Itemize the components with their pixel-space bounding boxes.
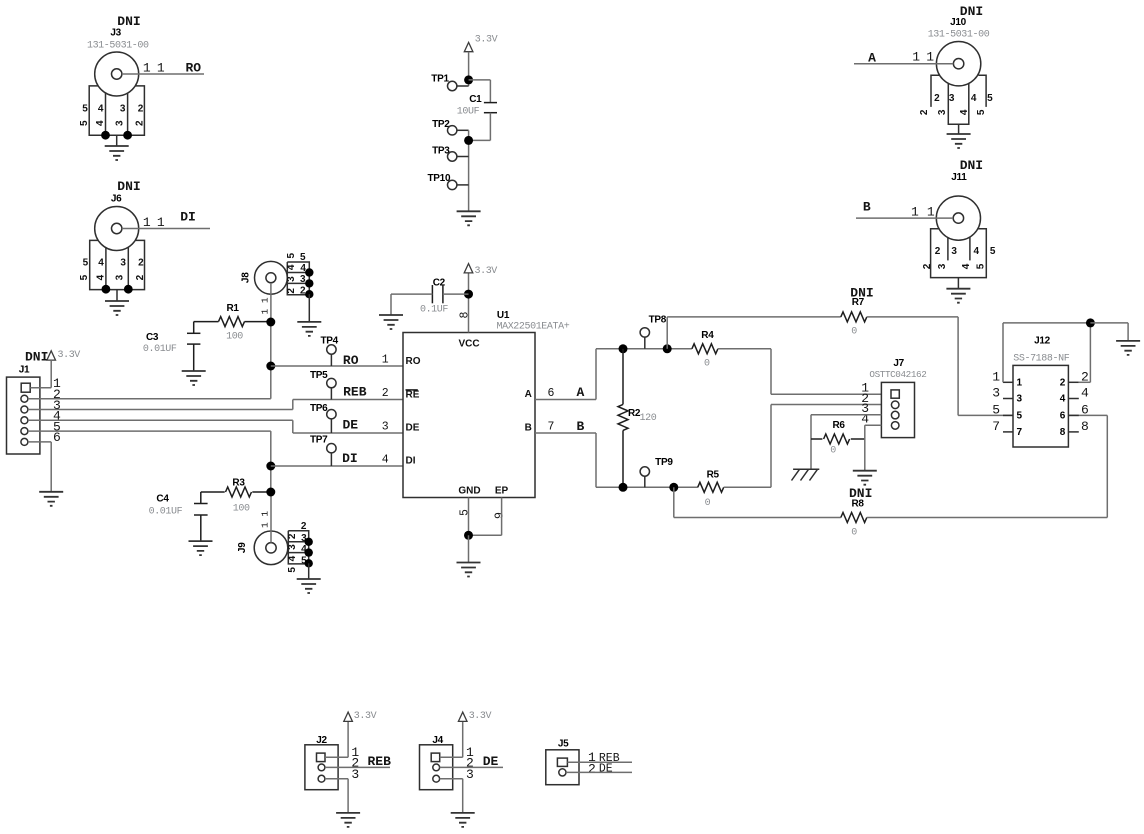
- svg-text:J8: J8: [241, 272, 252, 283]
- wire net A horizontal: [596, 348, 692, 350]
- connector J8 shield bracket: [287, 262, 309, 295]
- resistor R3 refdes: [232, 478, 245, 489]
- connector J5 refdes: [558, 739, 569, 750]
- svg-text:A: A: [868, 50, 876, 65]
- svg-text:2: 2: [287, 533, 298, 539]
- junction dot J12 ground: [1086, 318, 1095, 327]
- connector J1 pin circles: [21, 395, 28, 445]
- svg-text:4: 4: [1081, 386, 1089, 401]
- connector J4 refdes: [432, 735, 443, 746]
- connector J1 pin numbers: [53, 376, 61, 445]
- wire DI down to R3 J9: [270, 466, 272, 492]
- ground at J8: [297, 294, 321, 336]
- svg-text:EP: EP: [495, 485, 509, 496]
- junction dots on J8 shield: [305, 268, 313, 298]
- svg-text:8: 8: [1060, 427, 1066, 438]
- testpoint TP1 label: [431, 74, 449, 85]
- capacitor C4 value 0.01UF: [149, 507, 183, 518]
- testpoint TP9: [640, 467, 649, 488]
- connector J12 left pin stubs: [1003, 382, 1013, 432]
- power net label 3.3V at J4: [469, 711, 492, 722]
- svg-text:3.3V: 3.3V: [475, 266, 498, 277]
- svg-text:J9: J9: [237, 542, 248, 553]
- junction dot A R7: [663, 344, 672, 353]
- svg-text:A: A: [576, 385, 584, 400]
- resistor R1 value 100: [226, 332, 243, 343]
- wire J5 pin1 net REB: [567, 761, 632, 763]
- wire J8 R1 junction to RO: [270, 322, 272, 366]
- connector J5 pin circle: [559, 769, 566, 776]
- connector J4 body: [420, 745, 453, 790]
- wire GND to ground: [468, 535, 470, 562]
- wire J2 pin2 net REB: [325, 766, 390, 768]
- U1 pin number 7: [548, 421, 555, 434]
- connector J6 refdes: [111, 194, 122, 205]
- svg-text:1: 1: [143, 61, 151, 76]
- connector J6 shield bracket: [90, 240, 145, 289]
- svg-text:1: 1: [143, 215, 151, 230]
- svg-text:1 1: 1 1: [260, 297, 271, 314]
- svg-text:1: 1: [157, 61, 165, 76]
- U1 pin number 4: [382, 454, 389, 467]
- junction dot C1 ground: [464, 136, 473, 145]
- resistor R8 value 0: [851, 528, 857, 539]
- connector J5 body: [546, 750, 579, 785]
- connector J11 body circle: [936, 196, 980, 240]
- svg-text:0.01UF: 0.01UF: [143, 344, 177, 355]
- svg-text:5: 5: [987, 93, 993, 104]
- net label RO: [343, 353, 359, 368]
- junction dot R1 J8: [266, 318, 275, 327]
- svg-text:MAX22501EATA+: MAX22501EATA+: [497, 322, 570, 333]
- junction dot R3 J9: [266, 488, 275, 497]
- svg-text:1: 1: [926, 49, 934, 64]
- ground at J2: [336, 813, 360, 827]
- capacitor C4: [194, 492, 208, 541]
- connector J11 refdes: [951, 172, 967, 183]
- U1 pin number 8 rotated: [459, 311, 472, 318]
- svg-text:3: 3: [120, 104, 126, 115]
- connector J10 shield digits rotated: [919, 109, 987, 115]
- wire J1 pin5 net DI: [28, 430, 271, 432]
- resistor R7 label DNI: [850, 286, 873, 301]
- svg-text:B: B: [863, 200, 871, 215]
- U1 pin name GND: [458, 485, 480, 496]
- svg-text:4: 4: [95, 120, 106, 126]
- connector J10 shield digits upright: [934, 93, 993, 104]
- svg-text:3: 3: [351, 767, 359, 782]
- svg-text:4: 4: [974, 246, 980, 257]
- testpoint TP2 label: [432, 119, 450, 130]
- capacitor C1: [484, 103, 497, 113]
- wire J1 pin3 net REB: [28, 409, 293, 411]
- resistor R1 refdes: [227, 303, 240, 314]
- svg-text:C4: C4: [156, 494, 169, 505]
- connector J2 refdes: [316, 735, 327, 746]
- resistor R4 value 0: [704, 359, 710, 370]
- svg-text:SS-7188-NF: SS-7188-NF: [1013, 354, 1069, 365]
- U1 pin number 2: [382, 387, 389, 400]
- wire B to R8: [674, 487, 841, 517]
- svg-text:7: 7: [992, 419, 1000, 434]
- wire 3.3V to C1: [469, 80, 491, 103]
- svg-text:0: 0: [705, 498, 711, 509]
- capacitor C3 value 0.01UF: [143, 344, 177, 355]
- svg-text:C3: C3: [146, 332, 159, 343]
- wire net REB to U1 pin2: [293, 399, 403, 401]
- svg-text:4: 4: [382, 454, 389, 467]
- svg-text:5: 5: [459, 509, 472, 516]
- net label A at J10: [868, 50, 876, 65]
- svg-text:B: B: [576, 419, 584, 434]
- resistor R5 refdes: [707, 470, 720, 481]
- resistor R7 value 0: [851, 327, 857, 338]
- connector J10 pin numbers 1 1: [912, 49, 934, 64]
- svg-text:4: 4: [959, 109, 970, 115]
- resistor R4: [692, 344, 718, 354]
- testpoint TP8: [640, 328, 649, 349]
- svg-text:4: 4: [961, 263, 972, 269]
- resistor R5: [698, 482, 724, 492]
- resistor R3 value 100: [233, 504, 250, 515]
- testpoint TP1: [448, 81, 469, 90]
- connector J11 shield bracket: [931, 229, 987, 278]
- junction dot GND EP: [464, 531, 473, 540]
- junction dot B R2: [619, 483, 628, 492]
- svg-text:8: 8: [1081, 419, 1089, 434]
- svg-text:0: 0: [851, 528, 857, 539]
- connector J9 pin 1 wire up: [270, 492, 272, 543]
- connector J1 label DNI: [25, 350, 48, 365]
- connector J9 refdes: [237, 542, 248, 553]
- svg-text:3: 3: [937, 109, 948, 115]
- resistor R6: [811, 434, 865, 444]
- capacitor C2 value 0.1UF: [420, 305, 448, 316]
- testpoint TP10 label: [428, 173, 451, 184]
- connector J7 refdes: [893, 358, 904, 369]
- svg-text:3.3V: 3.3V: [475, 34, 498, 45]
- connector J11 shield digits rotated: [922, 263, 987, 269]
- net label DI: [342, 451, 358, 466]
- connector J8 shield digits upright: [300, 252, 306, 297]
- connector J12 right pin stubs: [1068, 382, 1078, 432]
- wire J7 pin4 to ground: [865, 425, 882, 471]
- power 3.3V at J1: [47, 351, 56, 388]
- svg-text:REB: REB: [343, 384, 367, 399]
- svg-text:J5: J5: [558, 739, 569, 750]
- resistor R2 refdes: [628, 408, 641, 419]
- U1 pin name RO: [406, 356, 421, 367]
- connector J3 shield pin digits: [82, 104, 144, 115]
- net label DE at J4: [483, 754, 499, 769]
- testpoint TP3 label: [432, 145, 450, 156]
- capacitor C1 value 10UF: [457, 107, 480, 118]
- svg-text:J7: J7: [893, 358, 904, 369]
- svg-text:0: 0: [704, 359, 710, 370]
- svg-text:10UF: 10UF: [457, 107, 480, 118]
- svg-text:R4: R4: [701, 330, 714, 341]
- connector J12 part number SS-7188-NF: [1013, 354, 1069, 365]
- svg-text:3: 3: [114, 120, 125, 126]
- svg-text:6: 6: [53, 430, 61, 445]
- net label A: [576, 385, 584, 400]
- svg-text:GND: GND: [458, 485, 480, 496]
- svg-text:DNI: DNI: [960, 158, 983, 173]
- ground at C2: [379, 315, 403, 329]
- svg-text:2: 2: [134, 120, 145, 126]
- svg-text:2: 2: [286, 288, 297, 294]
- svg-text:5: 5: [990, 246, 996, 257]
- svg-text:J10: J10: [950, 17, 967, 28]
- svg-text:3: 3: [992, 386, 1000, 401]
- svg-text:1: 1: [382, 354, 389, 367]
- connector J4 pin numbers: [466, 745, 474, 782]
- net label RO at J3: [185, 61, 201, 76]
- svg-text:1: 1: [992, 369, 1000, 384]
- wire DE jog: [292, 420, 294, 433]
- svg-text:C1: C1: [469, 94, 482, 105]
- svg-text:6: 6: [1060, 410, 1066, 421]
- testpoint TP3: [448, 152, 469, 161]
- connector J2 body: [305, 745, 338, 790]
- testpoint TP5: [327, 378, 336, 399]
- connector J8 shield digits rotated: [286, 252, 297, 293]
- U1 pin number 3: [382, 421, 389, 434]
- wire net DE to U1 pin3: [293, 432, 403, 434]
- svg-text:0: 0: [830, 446, 836, 457]
- svg-text:TP8: TP8: [649, 314, 667, 325]
- testpoint TP7: [327, 444, 336, 467]
- connector J5 pin numbers: [588, 750, 596, 777]
- resistor R8 label DNI: [849, 486, 872, 501]
- power net label 3.3V at J1: [58, 350, 81, 361]
- svg-text:TP9: TP9: [655, 457, 673, 468]
- ground at J9: [297, 563, 321, 593]
- svg-text:0.01UF: 0.01UF: [149, 507, 183, 518]
- wire J5 pin2 net DE: [566, 771, 632, 773]
- svg-text:3: 3: [466, 767, 474, 782]
- svg-text:TP7: TP7: [310, 434, 328, 445]
- svg-text:2: 2: [919, 109, 930, 115]
- svg-text:3: 3: [115, 274, 126, 280]
- connector J5 pin1 square: [557, 758, 567, 766]
- U1 pin name RE with overline: [406, 389, 420, 400]
- svg-text:R8: R8: [852, 499, 865, 510]
- wire to J12 ground symbol: [1090, 323, 1128, 341]
- power net label 3.3V at U1: [475, 266, 498, 277]
- wire A to R7: [667, 317, 841, 349]
- power net label 3.3V at J2: [354, 711, 377, 722]
- svg-text:C2: C2: [433, 278, 446, 289]
- net label DE: [342, 418, 358, 433]
- net label B at J11: [863, 200, 871, 215]
- resistor R2 termination: [618, 349, 628, 488]
- U1 pin name B: [525, 423, 532, 434]
- resistor R8 refdes: [852, 499, 865, 510]
- svg-text:5: 5: [83, 258, 89, 269]
- svg-text:DE: DE: [599, 763, 613, 776]
- junction dot VCC C2: [464, 290, 473, 299]
- svg-text:U1: U1: [497, 310, 510, 321]
- op-amp U1 body: [403, 333, 535, 498]
- junction dots on J3 shield: [101, 131, 132, 140]
- wire J2 pin3 to ground: [325, 779, 348, 813]
- ground at J3: [105, 135, 129, 160]
- connector J2 pin numbers: [351, 745, 359, 782]
- power 3.3V at TP1: [464, 42, 473, 86]
- resistor R6 refdes: [833, 420, 846, 431]
- connector J10 pin 1 wire net A: [854, 63, 953, 65]
- svg-text:4: 4: [287, 555, 298, 561]
- connector J3 pin 1 wire to RO: [122, 73, 204, 75]
- U1 pin name DE: [406, 422, 420, 433]
- svg-text:100: 100: [233, 504, 250, 515]
- connector J11 pin 1 wire net B: [856, 217, 953, 219]
- net label DI at J6: [180, 210, 196, 225]
- wire C1 to ground net: [469, 113, 491, 141]
- U1 pin number 1: [382, 354, 389, 367]
- resistor R8: [841, 513, 867, 523]
- net label REB at J2: [367, 754, 391, 769]
- svg-text:RO: RO: [406, 356, 421, 367]
- resistor R7: [841, 312, 867, 322]
- svg-text:4: 4: [96, 274, 107, 280]
- power 3.3V at J4: [458, 712, 467, 721]
- connector J10 part number: [928, 29, 990, 40]
- U1 pin name EP: [495, 485, 509, 496]
- svg-text:VCC: VCC: [458, 338, 479, 349]
- U1 pin number 9 rotated: [493, 512, 506, 519]
- svg-text:J1: J1: [19, 364, 30, 375]
- svg-text:TP5: TP5: [310, 370, 328, 381]
- testpoint TP6 label: [310, 403, 328, 414]
- svg-text:1 1: 1 1: [260, 511, 271, 528]
- net label REB: [343, 384, 367, 399]
- svg-text:2: 2: [1060, 377, 1066, 388]
- U1 pin name DI: [406, 455, 416, 466]
- connector J12 outer pin numbers left: [992, 369, 1000, 434]
- connector J3 label DNI: [117, 14, 140, 29]
- svg-text:J3: J3: [110, 28, 121, 39]
- svg-text:3.3V: 3.3V: [354, 711, 377, 722]
- svg-text:5: 5: [976, 263, 987, 269]
- net label B: [576, 419, 584, 434]
- connector J10 body circle: [936, 42, 980, 86]
- capacitor C1 refdes: [469, 94, 482, 105]
- svg-text:3: 3: [949, 93, 955, 104]
- svg-text:4: 4: [98, 258, 104, 269]
- connector J6 shield pin digits rotated: [79, 274, 146, 280]
- capacitor C3 refdes: [146, 332, 159, 343]
- svg-text:5: 5: [286, 252, 297, 258]
- connector J2 pin circles: [318, 764, 325, 782]
- svg-text:7: 7: [548, 421, 555, 434]
- wire J4 pin1 to 3.3V: [440, 721, 463, 757]
- wire J1 pin5 down to DI: [270, 431, 272, 466]
- connector J3 pin numbers 1 1: [143, 61, 165, 76]
- testpoint TP9 label: [655, 457, 673, 468]
- connector J3 part number 131-5031-00: [87, 41, 149, 52]
- U1 pin name A: [525, 389, 532, 400]
- svg-text:4: 4: [286, 264, 297, 270]
- ground at TP10: [457, 211, 481, 225]
- connector J8 body circle: [255, 261, 288, 294]
- svg-text:4: 4: [861, 411, 869, 426]
- ground at J11: [946, 278, 970, 303]
- testpoint TP2: [448, 126, 469, 135]
- power 3.3V at J2: [344, 712, 353, 721]
- svg-text:DNI: DNI: [25, 350, 48, 365]
- svg-text:4: 4: [1060, 394, 1066, 405]
- svg-text:3.3V: 3.3V: [469, 711, 492, 722]
- svg-text:5: 5: [1017, 410, 1023, 421]
- resistor R7 refdes: [852, 297, 865, 308]
- connector J12 inner pin numbers left: [1017, 377, 1023, 438]
- testpoint TP8 label: [649, 314, 667, 325]
- svg-text:DI: DI: [342, 451, 358, 466]
- capacitor C2: [391, 285, 469, 315]
- svg-text:B: B: [525, 423, 532, 434]
- ground at C3: [182, 371, 206, 385]
- wire J4 pin2 net DE: [440, 766, 503, 768]
- capacitor C3: [187, 322, 200, 371]
- svg-text:RO: RO: [185, 61, 201, 76]
- chassis ground at R6: [792, 469, 820, 480]
- svg-text:1: 1: [157, 215, 165, 230]
- connector J6 pin numbers 1 1: [143, 215, 165, 230]
- wire J1 pin4 net DE: [28, 419, 293, 421]
- wire R5 to J7 pin2: [724, 405, 882, 488]
- testpoint TP4 label: [320, 336, 338, 347]
- connector J12 outer pin numbers right: [1081, 369, 1089, 434]
- svg-text:3.3V: 3.3V: [58, 350, 81, 361]
- capacitor C2 refdes: [433, 278, 446, 289]
- net label DE at J5: [599, 763, 613, 776]
- wire J7 pin3 to R6: [811, 415, 881, 470]
- svg-text:DE: DE: [406, 422, 420, 433]
- svg-text:OSTTC042162: OSTTC042162: [869, 369, 926, 380]
- testpoint TP5 label: [310, 370, 328, 381]
- connector J6 label DNI: [117, 179, 140, 194]
- wire RO vertical to J1 pin2: [270, 366, 272, 399]
- svg-text:TP6: TP6: [310, 403, 328, 414]
- resistor R2 value 120: [640, 413, 657, 424]
- capacitor C4 refdes: [156, 494, 169, 505]
- svg-text:5: 5: [992, 402, 1000, 417]
- svg-text:2: 2: [934, 93, 940, 104]
- svg-text:R5: R5: [707, 470, 720, 481]
- svg-text:3: 3: [951, 246, 957, 257]
- connector J7 part number OSTTC042162: [869, 369, 926, 380]
- ground at U1: [457, 563, 481, 577]
- wire U1 GND pin: [468, 498, 470, 536]
- junction dot RO: [266, 362, 275, 371]
- svg-text:2: 2: [935, 246, 941, 257]
- ground at J12: [1116, 341, 1140, 355]
- connector J6 pin 1 wire to DI: [122, 228, 210, 230]
- connector J12 inner pin numbers right: [1060, 377, 1066, 438]
- resistor R4 refdes: [701, 330, 714, 341]
- junction dots on J9 shield: [305, 538, 313, 568]
- svg-text:REB: REB: [367, 754, 391, 769]
- svg-text:J6: J6: [111, 194, 122, 205]
- ground at J10: [947, 124, 971, 148]
- U1 pin number 6: [548, 387, 555, 400]
- svg-text:3: 3: [120, 258, 126, 269]
- connector J4 pin1 square: [431, 753, 440, 762]
- svg-text:DE: DE: [342, 418, 358, 433]
- svg-text:2: 2: [135, 274, 146, 280]
